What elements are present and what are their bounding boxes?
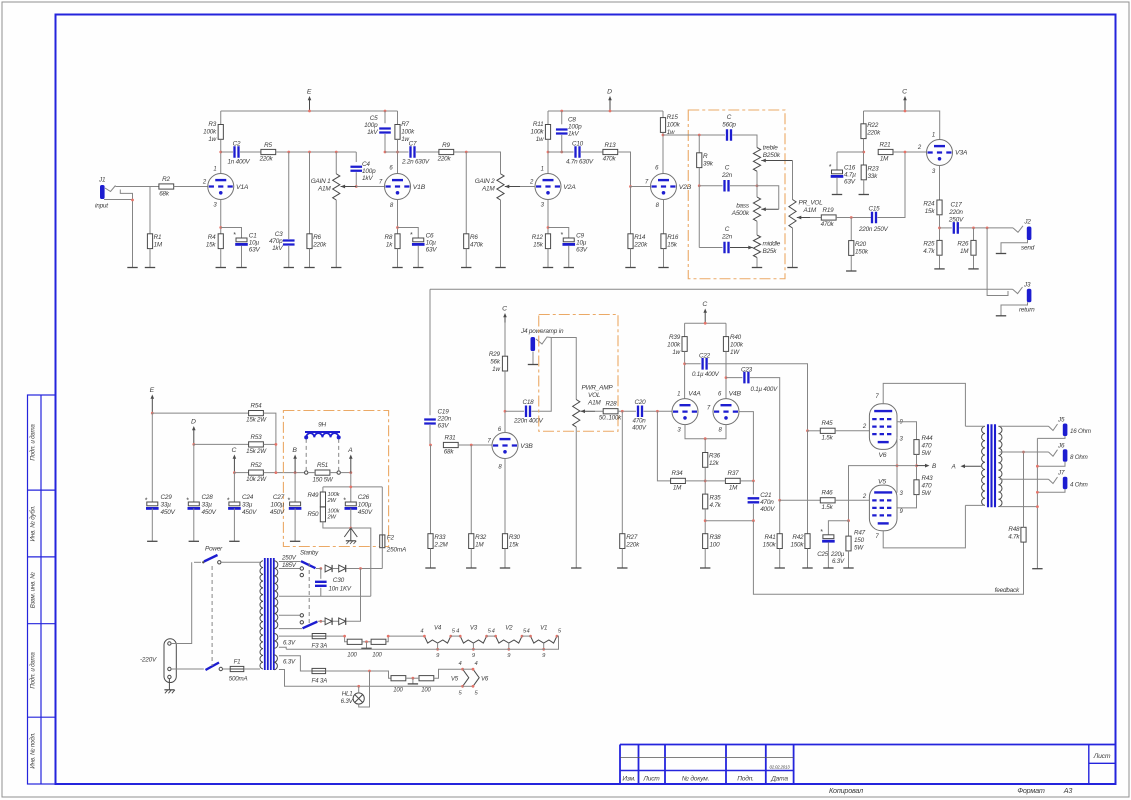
junction pin5 V2 [521,635,524,638]
svg-text:1W: 1W [730,349,740,356]
svg-text:R8: R8 [385,234,393,241]
wire wiper to V2A grid [520,186,535,188]
junction [547,151,550,154]
wire wiper to R19 [810,217,821,219]
wire V5-V6 heater bottom [463,685,473,687]
tone stack dashed box [688,110,785,279]
resistor R 39k [697,153,702,168]
wire chassis node to CT [351,528,371,596]
wire to V1B grid [356,186,384,188]
junction pin4 V4 [423,635,426,638]
ground R23 [859,194,869,196]
wire C bus [864,111,940,140]
svg-text:1M: 1M [673,485,682,492]
svg-text:V5: V5 [878,479,886,486]
transformer T1 core [265,558,274,670]
wire R19 to C15 [836,217,871,219]
wire to C1 [221,228,242,239]
junction pin4 V6h [472,668,475,671]
capacitor C 560p [727,129,731,141]
svg-text:C25: C25 [817,551,829,558]
wire R32 to ground [470,549,472,569]
resistor R53 [249,442,264,447]
resistor R15 [660,118,665,133]
wire heater2 top tap [279,656,312,671]
resistor R24 [937,200,942,215]
wire J1 tip contact [105,186,116,192]
capacitor C21 [748,498,760,502]
wire R30 to ground [504,549,506,569]
junction [752,480,755,483]
wire down to R42 [807,431,809,534]
svg-text:R21: R21 [880,142,891,149]
wire hum2 to V5 heater [434,669,463,678]
capacitor C19 [424,420,436,424]
wire plate to C10 [548,151,574,153]
wire R12 to ground [547,249,549,268]
svg-text:100k: 100k [667,122,681,129]
ground C6 [413,267,423,269]
svg-text:R3: R3 [208,121,216,128]
wire R28 to C20 [618,410,636,412]
wire R2 to V1A grid [174,186,208,188]
junction pin5 V6h [472,685,475,688]
capacitor C8 [556,130,568,134]
heater V3 [460,636,486,643]
wire R15 to V2B anode [662,132,664,173]
resistor R16 [661,234,666,249]
svg-text:treble: treble [763,145,778,152]
wire plate node to C7 [385,151,409,153]
junction [560,110,563,113]
svg-text:V1: V1 [540,625,547,632]
jack J1 input [100,185,105,199]
wire 185V tap [279,568,300,570]
svg-text:R6: R6 [313,234,321,241]
svg-text:C19: C19 [438,409,450,416]
svg-text:39k: 39k [703,161,714,168]
wire primary bottom [965,504,984,506]
wire to R20 [850,218,852,241]
junction [609,110,612,113]
svg-text:V1A: V1A [236,184,249,191]
wire hum to V4 heater [386,636,425,642]
svg-text:10µ: 10µ [426,240,437,247]
svg-text:C29: C29 [161,494,173,501]
junction [308,110,311,113]
wire J6 contact [1049,450,1058,457]
svg-text:R2: R2 [162,176,170,183]
capacitor C6 [412,238,425,244]
junction [192,443,195,446]
junction pin9 V4 [436,648,439,651]
wire to power switch [194,561,201,563]
svg-text:100k: 100k [401,129,415,136]
transformer T1 heater winding 2 [274,655,277,670]
wiper PWR_AMP [581,409,596,413]
svg-text:A: A [347,447,353,454]
wire R36 to R35 [704,467,706,494]
svg-text:10n 1KV: 10n 1KV [329,586,352,593]
svg-text:A3: A3 [1063,786,1073,795]
wire R29 to V3B anode [504,371,506,433]
node E arrow [307,89,312,112]
capacitor C10 [576,146,580,158]
wire B to C27 [294,473,296,502]
node C arrow PI [702,301,707,323]
wire mains live up [171,562,192,643]
svg-text:C18: C18 [523,399,535,406]
B+ filter dashed box [283,411,388,547]
wire R23 to ground [863,180,865,195]
wire center node to R37 [705,480,725,482]
svg-text:R5: R5 [264,142,272,149]
wire R45 to V6 grid [835,430,869,432]
svg-text:100p: 100p [364,122,378,129]
wire R24 to send node [939,215,941,241]
pentode V6 [869,404,897,450]
potentiometer middle [753,235,760,258]
svg-text:1kV: 1kV [568,131,579,138]
junction [850,216,853,219]
wire divider to C16 branch [837,151,864,153]
wire R9 to GAIN2 [454,152,501,174]
wire C22 to V6 grid branch [708,364,807,431]
svg-text:22n: 22n [721,172,733,179]
wire R3 top [220,111,222,125]
contact power switch b [218,561,221,564]
wire to R6 [309,152,311,234]
fuse F2 [380,535,385,548]
wire C15 up to V3A grid [878,153,906,218]
fuse F4 [312,668,326,673]
title block row line [620,757,794,759]
wire to C22 [685,363,701,365]
junction [387,635,390,638]
svg-text:100: 100 [347,653,357,659]
svg-text:Лист: Лист [642,776,660,783]
diode D3 [325,618,332,625]
wire to R47 [848,521,850,537]
choke contact right [337,471,340,474]
svg-text:185V: 185V [282,562,297,569]
svg-text:1n 400V: 1n 400V [228,159,251,166]
wire 16 ohm tap [1000,425,1049,427]
wire C25 to ground [827,542,829,568]
svg-text:450V: 450V [202,509,217,516]
wire to R10 [465,152,467,234]
jack J2 send [1027,227,1032,241]
svg-text:R13: R13 [605,142,617,149]
resistor R8 [395,234,400,249]
wire C to C24 [233,473,235,502]
svg-text:470n: 470n [760,499,774,506]
svg-text:C5: C5 [370,115,378,122]
transformer T1 heater winding 1 [274,634,278,649]
svg-text:Stanby: Stanby [300,550,319,557]
svg-text:C28: C28 [202,494,214,501]
capacitor C25 [822,535,835,541]
wire C30 to CT line [320,588,322,596]
wire C19 to R31 [429,425,431,445]
jack J7 4 Ohm [1063,477,1068,490]
ground R6 [304,267,314,269]
svg-text:4: 4 [526,629,529,635]
wire R5 to C4 corner [276,151,357,153]
resistor R3 [218,125,223,140]
junction [275,443,278,446]
svg-text:Подп.: Подп. [737,775,754,783]
svg-text:V2A: V2A [563,184,576,191]
wire R37 to bias node [740,480,753,482]
wire to C17 [940,227,952,229]
junction [287,151,290,154]
svg-text:R50: R50 [308,511,320,518]
svg-text:220k: 220k [633,242,648,249]
resistor R hum1b [371,639,386,644]
wire R43 to V5 screen [897,495,917,508]
svg-text:63V: 63V [438,423,450,430]
capacitor C20 [638,405,642,417]
heater V2 [496,636,522,643]
node B arrow PSU [292,447,297,473]
wire J3 tip contact [1013,287,1023,294]
chassis ground C26 [344,528,357,544]
wiper treble [761,159,792,163]
wire R39 top [684,323,686,337]
svg-text:100µ: 100µ [358,502,372,509]
svg-text:R34: R34 [672,470,684,477]
wire F1 to primary [244,668,260,670]
svg-text:R: R [703,153,708,160]
svg-text:C10: C10 [572,141,584,148]
svg-text:R20: R20 [855,241,867,248]
svg-text:6.3V: 6.3V [341,698,354,705]
svg-text:220n: 220n [437,416,452,423]
junction [1036,491,1039,494]
svg-text:1.5k: 1.5k [821,435,833,442]
wire R26 to ground [973,255,975,269]
junction [1036,505,1039,508]
junction [233,471,236,474]
svg-text:F1: F1 [234,659,241,666]
wire heater CT V3 [472,643,474,649]
svg-text:2W: 2W [327,515,337,521]
svg-text:1M: 1M [154,242,163,249]
fuse F3 [312,634,326,639]
svg-text:63V: 63V [426,247,438,254]
resistor R38 [703,534,708,549]
triode V2B [651,174,677,200]
svg-text:Подп. и дата: Подп. и дата [30,424,37,461]
svg-text:1: 1 [213,167,216,173]
junction pin5 V4 [449,635,452,638]
wire R39 to V4A anode [684,351,686,398]
svg-text:A1M: A1M [317,186,331,193]
resistor R40 [723,337,728,352]
svg-text:C: C [725,165,730,172]
svg-text:J7: J7 [1057,470,1065,477]
svg-text:V3A: V3A [955,150,968,157]
node C arrow V3B [502,306,507,323]
junction pin4 V2 [494,635,497,638]
wire R54 to C node [263,413,276,473]
node A arrow [961,464,981,468]
svg-text:F2: F2 [387,535,395,542]
wire V3A cathode to R24 [939,166,941,201]
ground R4 [216,267,226,269]
svg-text:450V: 450V [242,509,257,516]
junction [349,471,352,474]
svg-text:450V: 450V [161,509,176,516]
resistor R39 [682,337,687,352]
diode D4 [339,618,346,625]
potentiometer PR_VOL [789,200,796,229]
wire J4 contact to PWR_AMP pot [536,337,576,400]
wire PWR_AMP pot to ground [575,427,577,568]
svg-text:100: 100 [393,688,403,694]
svg-text:R4: R4 [208,234,216,241]
ground C16 [832,194,842,196]
capacitor C27 [289,502,302,508]
transformer T2 core [988,424,995,507]
contact power switch a [202,561,204,563]
wire V1B cathode [397,200,399,234]
svg-text:R7: R7 [401,121,409,128]
svg-text:5W: 5W [922,450,932,457]
svg-text:R24: R24 [923,201,935,208]
wire E to R54 [152,412,248,414]
junction pin5 V5h [461,685,464,688]
triode V4B [713,399,739,425]
wire to middle cap [699,247,722,249]
svg-text:D: D [607,89,612,96]
svg-text:R27: R27 [626,534,638,541]
wire C9 to ground [568,246,570,268]
wire V2A cathode [547,200,549,234]
resistor R44 [914,440,919,455]
svg-text:C23: C23 [741,366,753,373]
ground R14 [625,267,635,269]
wire V3B cathode to R30 [504,459,506,534]
wire V2-V1 heater [522,635,530,637]
capacitor C16 [831,170,844,176]
choke 9H [304,432,341,439]
wire cap to treble pot [733,135,758,148]
wire C7 to R9 [416,151,439,153]
ground R38 [700,567,710,569]
ground R33 [425,567,435,569]
svg-text:470k: 470k [821,221,835,228]
wire to C23 [726,377,742,379]
svg-text:470: 470 [922,483,933,490]
svg-text:R54: R54 [251,403,263,410]
junction [938,227,941,230]
wire hum center to ground [366,642,368,649]
wire to R26 [973,228,975,241]
wire secondary bottom tap [1000,506,1038,508]
junction [704,437,707,440]
resistor R29 [502,356,507,371]
ground J4 [528,364,538,366]
ground R30 [500,567,510,569]
svg-text:63V: 63V [249,247,261,254]
wire return bus down to C19 [429,289,431,415]
switch standby [301,561,316,568]
svg-text:B: B [292,447,297,454]
svg-text:R26: R26 [957,241,969,248]
junction [698,184,701,187]
wire R11 to V2A anode [547,139,549,173]
wire C20 to V4A grid [644,410,672,412]
svg-text:22n: 22n [721,234,733,241]
junction [547,226,550,229]
svg-text:100: 100 [710,542,721,549]
svg-text:R23: R23 [868,166,880,173]
wire D to C28 [193,444,195,502]
jack J4 poweramp in [531,337,536,351]
wire to C9 [548,228,569,239]
svg-text:A500k: A500k [731,210,750,217]
wire V3-V2 heater [487,635,496,637]
junction [465,151,468,154]
svg-text:1kV: 1kV [367,129,378,136]
svg-text:R30: R30 [509,534,521,541]
svg-text:6.3V: 6.3V [832,558,845,565]
svg-text:250mA: 250mA [386,547,406,554]
svg-text:4.7k: 4.7k [923,248,935,255]
svg-text:100: 100 [372,653,382,659]
svg-text:1k: 1k [386,242,393,249]
resistor R37 [725,478,740,483]
svg-text:1kV: 1kV [362,175,373,182]
potentiometer PWR_AMP VOL [573,400,580,428]
wire R7 top [397,111,399,125]
wire to C4 [355,152,357,162]
svg-text:68k: 68k [159,191,170,198]
svg-text:9H: 9H [318,422,326,429]
title block lines [620,745,1116,785]
junction [778,499,781,502]
svg-text:R40: R40 [730,334,742,341]
svg-text:R19: R19 [823,207,835,214]
node C arrow [902,89,907,112]
svg-text:4.7n 630V: 4.7n 630V [566,159,594,166]
svg-text:R49: R49 [308,492,320,499]
svg-text:0.1µ 400V: 0.1µ 400V [751,386,779,393]
svg-text:R37: R37 [728,470,740,477]
svg-text:PWR_AMP: PWR_AMP [582,385,614,392]
svg-text:R35: R35 [710,495,722,502]
capacitor C2 [235,146,239,158]
junction pin4 V1 [529,635,532,638]
wire choke link left [305,437,307,471]
svg-text:middle: middle [763,241,781,248]
svg-text:4: 4 [492,629,495,635]
wire standby link [308,563,310,626]
resistor R12 [545,234,550,249]
svg-text:R44: R44 [922,435,934,442]
wire heater CT V4 [437,643,439,649]
resistor R41 [777,534,782,549]
junction [349,527,352,530]
wire R15 top [662,111,664,118]
resistor R46 [820,498,835,503]
svg-text:220k: 220k [437,156,452,163]
wire E to C29 [151,413,153,502]
resistor R hum2b [419,676,434,681]
wire to GAIN1 pot [335,152,337,174]
